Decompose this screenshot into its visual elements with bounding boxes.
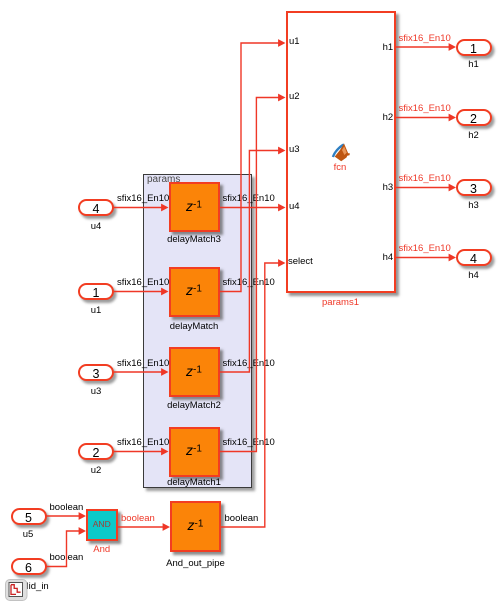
label delayMatch2 <box>167 401 221 410</box>
pin label u3 <box>289 145 300 154</box>
wire h3 to outport3 <box>396 187 451 189</box>
arrowhead into And pin2 <box>79 527 86 535</box>
wire And to And_out_pipe <box>118 526 165 528</box>
signal label boolean (valid_in wire) <box>50 553 84 562</box>
label u4 <box>91 222 102 231</box>
signal label sfix16_En10 (delayMatch out) <box>223 278 275 287</box>
wire h4 to outport4 <box>396 257 451 259</box>
wire h2 to outport2 <box>396 117 451 119</box>
label delayMatch1 <box>167 478 221 487</box>
arrowhead into And_out_pipe <box>163 523 170 531</box>
label u5 <box>23 530 34 539</box>
arrowhead into u1 <box>278 39 285 47</box>
label u2 <box>91 466 102 475</box>
label h3 <box>468 201 479 210</box>
signal label sfix16_En10 (u4 wire) <box>117 194 169 203</box>
arrowhead into select <box>278 259 285 267</box>
signal label sfix16_En10 (u1 wire) <box>117 278 169 287</box>
label fcn <box>334 163 347 172</box>
subsystem area params (lavender background box) <box>143 174 252 489</box>
inport 4 <box>78 199 114 216</box>
block delayMatch3 <box>169 182 220 232</box>
arrowhead into outport4 <box>449 254 456 262</box>
wire port4 to delayMatch3 <box>114 207 162 209</box>
signal label sfix16_En10 (u2 wire) <box>117 438 169 447</box>
block delayMatch1 <box>169 427 220 477</box>
label h2 <box>468 131 479 140</box>
arrowhead into delayMatch <box>161 288 168 296</box>
wire port2 to delayMatch1 <box>114 451 162 453</box>
pin label h2 <box>383 113 394 122</box>
label u3 <box>91 387 102 396</box>
wire h1 to outport1 <box>396 46 451 48</box>
signal label sfix16_En10 (h3 wire, red) <box>399 174 451 183</box>
pin label h4 <box>383 253 394 262</box>
label valid_in (partly hidden by badge) <box>17 582 49 591</box>
arrowhead into And pin1 <box>79 512 86 520</box>
signal label sfix16_En10 (delayMatch3 out) <box>223 194 275 203</box>
outport 1 <box>456 39 492 56</box>
signal label sfix16_En10 (h1 wire, red) <box>399 34 451 43</box>
pin label h1 <box>383 43 394 52</box>
block delayMatch2 <box>169 347 220 397</box>
pin label u4 <box>289 202 300 211</box>
signal label sfix16_En10 (h2 wire, red) <box>399 104 451 113</box>
label delayMatch3 <box>167 235 221 244</box>
label h4 <box>468 271 479 280</box>
arrowhead into u3 <box>278 147 285 155</box>
signal label boolean (And out, red) <box>121 514 155 523</box>
arrowhead into outport2 <box>449 114 456 122</box>
label params1 <box>322 298 359 307</box>
wire port3 to delayMatch2 <box>114 371 162 373</box>
inport 3 <box>78 364 114 381</box>
subsystem params1 <box>286 11 396 293</box>
badge icon (signal logging) bottom-left <box>0 576 60 604</box>
signal label boolean (And_out_pipe out) <box>225 514 259 523</box>
label And_out_pipe <box>166 559 225 568</box>
inport 5 <box>11 508 47 525</box>
wire delayMatch1 to u2 <box>220 98 280 452</box>
signal label boolean (u5 wire) <box>50 503 84 512</box>
wire delayMatch2 to u3 <box>220 151 280 373</box>
wire port1 to delayMatch <box>114 291 162 293</box>
label And <box>93 545 110 554</box>
wire port5 to And <box>45 515 80 517</box>
label h1 <box>468 60 479 69</box>
label params <box>147 175 180 184</box>
wire port6 to And <box>45 531 80 567</box>
arrowhead into delayMatch1 <box>161 448 168 456</box>
outport 2 <box>456 109 492 126</box>
outport 3 <box>456 179 492 196</box>
pin label h3 <box>383 183 394 192</box>
signal label sfix16_En10 (delayMatch1 out) <box>223 438 275 447</box>
wire delayMatch to u1 <box>220 43 280 292</box>
wire And_out_pipe to select <box>221 263 279 527</box>
blue wing of MATLAB logo <box>332 143 345 157</box>
arrowhead into u4 <box>278 204 285 212</box>
inport 1 <box>78 283 114 300</box>
pin label select <box>288 257 313 266</box>
label u1 <box>91 306 102 315</box>
inport 2 <box>78 443 114 460</box>
pin label u2 <box>289 92 300 101</box>
pin label u1 <box>289 37 300 46</box>
arrowhead into outport3 <box>449 184 456 192</box>
signal label sfix16_En10 (h4 wire, red) <box>399 244 451 253</box>
block And_out_pipe <box>170 501 221 552</box>
outport 4 <box>456 249 492 266</box>
arrowhead into u2 <box>278 94 285 102</box>
arrowhead into outport1 <box>449 43 456 51</box>
arrowhead into delayMatch3 <box>161 204 168 212</box>
signal label sfix16_En10 (delayMatch2 out) <box>223 359 275 368</box>
wire delayMatch3 to u4 <box>220 207 280 209</box>
arrowhead into delayMatch2 <box>161 368 168 376</box>
label delayMatch <box>170 322 219 331</box>
highlight on logo <box>342 146 347 155</box>
block And (logical AND gate) <box>86 509 118 541</box>
block delayMatch <box>169 267 220 317</box>
inport 6 <box>11 558 47 575</box>
orange body of MATLAB logo <box>335 144 350 162</box>
signal label sfix16_En10 (u3 wire) <box>117 359 169 368</box>
